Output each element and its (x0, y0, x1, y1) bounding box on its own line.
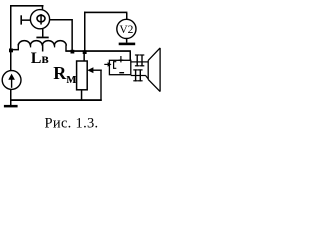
wire: mid rail (65, 50, 131, 52)
box arrow (104, 62, 111, 67)
svg-text:V2: V2 (119, 24, 133, 36)
V2 bottom probe bar (119, 43, 136, 46)
wire: lower coupling lead (131, 75, 149, 79)
current source I1 (2, 71, 21, 90)
wire: bottom rail (11, 99, 102, 101)
Rm wiper arm (87, 67, 101, 101)
wire: Rm top lead (83, 52, 85, 61)
wire: top-right horizontal (84, 12, 127, 14)
wire: rail left stub (11, 49, 19, 51)
junction node A (71, 50, 75, 54)
box bracket (114, 62, 117, 69)
wire: top-left horizontal (10, 5, 44, 7)
phi bottom probe bar (36, 37, 48, 39)
wire: phi left lead (22, 19, 31, 21)
upper plates (135, 54, 144, 66)
box plus terminal (119, 56, 124, 62)
potentiometer Rm body (77, 61, 88, 90)
junction node C (83, 50, 87, 54)
wire: vertical from top wire down to rail (84, 12, 86, 52)
transducer box BQ1 (109, 60, 130, 74)
ground (4, 105, 18, 108)
voltmeter V2 (117, 19, 136, 38)
phi left probe bar (20, 15, 22, 24)
wire: upper coupling lead (131, 61, 148, 62)
svg-text:Lв: Lв (31, 50, 49, 67)
inductor Lv (18, 41, 67, 52)
junction node B (9, 49, 13, 53)
wire: rail drop to transducer box (130, 52, 132, 61)
phase meter P1 (φ) (30, 10, 49, 29)
horn (acoustic radiator) (148, 48, 160, 92)
wire: V2 top lead (126, 13, 128, 20)
wire: drop from phi right lead to rail (71, 19, 73, 52)
wire: phi bottom lead (42, 29, 44, 37)
wire: left vertical below source (10, 89, 12, 107)
wire: left vertical rail (10, 5, 12, 71)
box minus mark (119, 72, 124, 73)
wire: Rm bottom lead (81, 90, 83, 101)
svg-text:Рис. 1.3.: Рис. 1.3. (45, 116, 99, 132)
wire: phi right lead (49, 19, 72, 21)
wire: V2 bottom lead (126, 38, 128, 42)
lower plates (133, 69, 142, 81)
wire: phase meter top lead (42, 5, 44, 11)
